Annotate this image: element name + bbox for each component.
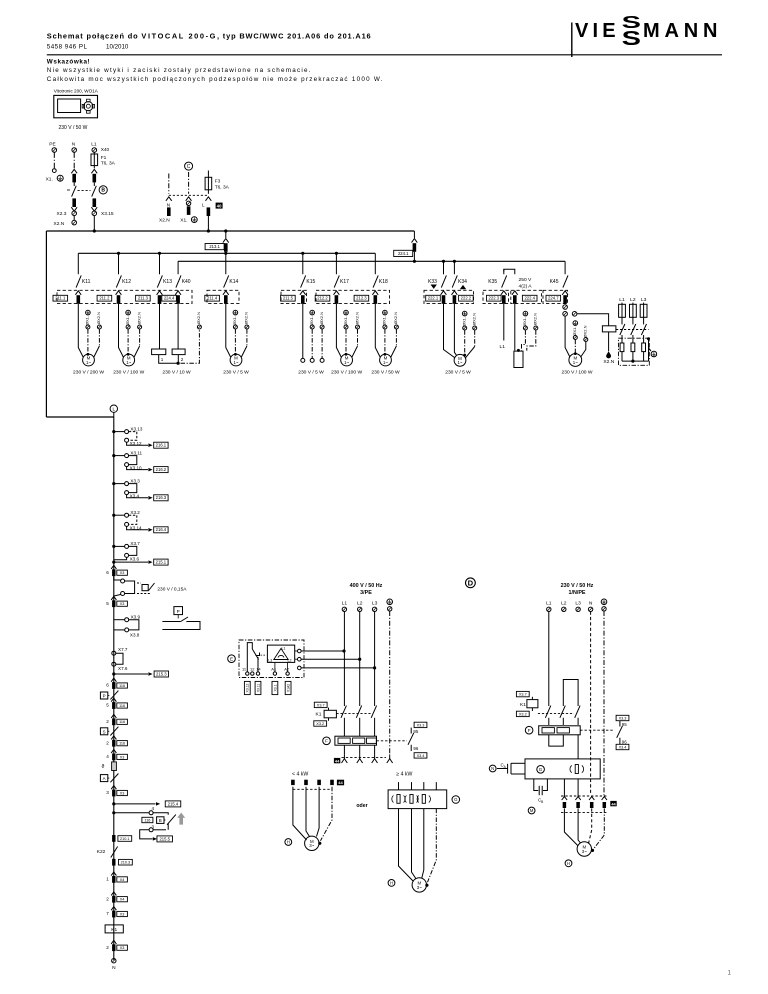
wire C right <box>207 171 209 178</box>
svg-text:L1: L1 <box>282 646 286 650</box>
relay coil K45 aux <box>602 326 616 332</box>
svg-text:95: 95 <box>413 729 418 734</box>
switch main L1 pole <box>92 186 97 197</box>
ref box 215.1 <box>154 559 168 565</box>
wire X1 dash-dot <box>574 340 576 353</box>
node 215.4 branch <box>112 802 115 805</box>
wire L1 to bus <box>93 216 95 231</box>
connector pin 7 X3 <box>111 907 116 911</box>
node L designator <box>110 405 117 412</box>
link X3.2-X3.14 <box>129 515 137 524</box>
svg-text:X3.4: X3.4 <box>417 754 425 758</box>
svg-text:ØX2.N: ØX2.N <box>96 312 101 324</box>
svg-text:ØX1.: ØX1. <box>343 316 348 325</box>
switch label B <box>99 186 107 194</box>
wires G outputs <box>563 779 565 798</box>
node K14 bus2 <box>224 252 227 255</box>
wire K35 to L1 end <box>503 304 505 341</box>
aux contact 95/96 <box>414 722 427 727</box>
contact pin B <box>121 592 125 596</box>
wire X1 dash-dot <box>345 329 347 353</box>
terminal X1. earth column <box>383 310 388 315</box>
svg-text:L3: L3 <box>575 600 581 606</box>
pin contact lower <box>563 312 568 317</box>
ref box 211.3 <box>136 295 151 301</box>
wire K18 to motor <box>375 306 380 358</box>
svg-text:L2: L2 <box>630 297 636 303</box>
connector K14 socket <box>223 291 229 295</box>
resistor element <box>620 343 624 352</box>
wire X3.8 return <box>113 617 115 620</box>
designator D <box>466 578 476 588</box>
wire X1 dash-dot open <box>311 329 313 358</box>
wire K34 below plug <box>453 304 455 306</box>
contact pin 4 <box>114 812 149 814</box>
link X3.3-X3.4 <box>129 484 137 493</box>
signal arrow to 216.2 <box>127 467 148 470</box>
svg-text:1~: 1~ <box>233 360 238 365</box>
module E dash-dot outline <box>239 640 304 678</box>
wire to 215.5 <box>140 830 153 839</box>
wire X2.N dash-dot <box>474 330 476 346</box>
plug box X4 <box>117 877 128 882</box>
motor K18 load <box>380 354 392 366</box>
plug box X3 <box>117 570 128 575</box>
svg-text:X3.3: X3.3 <box>130 478 140 483</box>
wire K34 to motor <box>454 306 456 355</box>
wire bus main 230V <box>46 230 414 232</box>
svg-text:12: 12 <box>250 667 255 672</box>
plug designator C <box>185 162 193 170</box>
connector K35b plug <box>513 295 517 304</box>
svg-text:X3.1: X3.1 <box>273 684 277 691</box>
motor K14 load <box>230 354 242 366</box>
wire X2.N dash-dot <box>246 329 248 346</box>
plug box X4 <box>117 897 128 902</box>
svg-text:212.2: 212.2 <box>317 296 328 301</box>
terminal X1. earth column <box>523 311 528 316</box>
svg-text:L: L <box>202 203 205 208</box>
dashed plug group outline <box>316 290 390 303</box>
connector pin 4 X3 <box>111 750 116 754</box>
ref box 212.3 <box>354 295 369 301</box>
ref box 224.7 <box>546 295 561 301</box>
fuse <box>619 304 626 317</box>
flow switch box 116 <box>142 817 153 822</box>
node right riser top <box>647 337 650 340</box>
svg-text:230 V / 5 W: 230 V / 5 W <box>298 369 324 375</box>
signal arrow to 216.1 <box>127 442 148 445</box>
overload relay F 1ph <box>525 726 533 734</box>
dashed link F to aux <box>377 740 408 742</box>
linkage dashed from coil <box>616 329 649 331</box>
ref box 216.2 <box>154 467 168 473</box>
connector pin 6 X3 <box>111 565 116 569</box>
svg-text:A2: A2 <box>284 667 290 672</box>
node K17 bus2 <box>335 252 338 255</box>
wire K11 below plug <box>77 304 79 306</box>
svg-text:X4: X4 <box>120 898 125 902</box>
motor K17 load <box>341 354 353 366</box>
node X3.2 branch <box>112 514 115 517</box>
svg-text:L: L <box>113 406 116 411</box>
node 213.1 bus <box>224 229 227 232</box>
ref box 211.5 <box>281 295 296 301</box>
svg-text:224.4: 224.4 <box>164 296 175 301</box>
svg-text:S: S <box>622 27 641 49</box>
actuation arrow <box>177 813 185 825</box>
svg-text:K18: K18 <box>379 279 388 285</box>
svg-text:1/N/PE: 1/N/PE <box>568 590 585 596</box>
wire PE small motor dash-dot <box>321 787 333 841</box>
svg-text:14: 14 <box>256 667 261 672</box>
contactor K1 3ph <box>314 702 327 707</box>
designator N <box>489 765 496 772</box>
svg-text:1~: 1~ <box>383 360 388 365</box>
terminal X1. earth column <box>233 310 238 315</box>
svg-text:L3: L3 <box>641 297 647 303</box>
node K35 load top <box>517 349 520 352</box>
soft starter G box <box>388 790 447 809</box>
node loads junction <box>177 362 180 365</box>
svg-text:211.2: 211.2 <box>99 296 110 301</box>
svg-text:6: 6 <box>106 683 109 688</box>
svg-text:211.5: 211.5 <box>283 296 294 301</box>
wire N to motor dashed <box>589 808 592 843</box>
wire X2.N to motor <box>581 342 586 357</box>
svg-text:X7.6: X7.6 <box>118 666 128 671</box>
svg-text:L2: L2 <box>561 600 567 606</box>
connector pin 2 116 <box>111 736 116 740</box>
connector K18 plug <box>374 295 378 304</box>
svg-text:K14: K14 <box>229 279 238 285</box>
contactor blades 3ph <box>621 320 623 324</box>
svg-text:4(2) A: 4(2) A <box>519 284 533 290</box>
connector L1 socket <box>91 169 97 173</box>
svg-text:X2.3: X2.3 <box>57 211 67 217</box>
ref box 213.1 <box>205 244 224 250</box>
ref box 215.3 <box>154 671 168 677</box>
ref box 222.1 <box>426 295 441 301</box>
switch main N pole <box>67 189 70 191</box>
svg-text:K15: K15 <box>306 279 315 285</box>
svg-text:Vitotronic 200, WO1A: Vitotronic 200, WO1A <box>54 89 99 94</box>
wire E to L1 <box>301 650 344 652</box>
wire X1 dash-dot <box>127 329 129 353</box>
svg-text:ØX2.N: ØX2.N <box>472 313 477 325</box>
wire K40 below plug <box>177 304 179 306</box>
wire K13 to load <box>159 306 161 350</box>
svg-text:215.4: 215.4 <box>168 801 179 806</box>
node K12 bus2 <box>117 252 120 255</box>
svg-text:K13: K13 <box>163 279 172 285</box>
svg-text:X3: X3 <box>120 912 125 916</box>
connector K11 socket <box>75 291 81 295</box>
ref box 211.2 <box>97 295 112 301</box>
svg-text:216.3: 216.3 <box>156 495 167 500</box>
wires G to motor <box>399 809 414 882</box>
connector K35b socket <box>512 291 518 295</box>
soft starter module <box>267 645 294 662</box>
svg-text:B: B <box>159 818 162 823</box>
dashed plug group outline <box>281 290 307 303</box>
plug box X3 <box>117 790 128 795</box>
svg-text:ØX1.: ØX1. <box>232 316 237 325</box>
contact X3.13 <box>114 431 125 433</box>
terminal N chain end <box>112 959 116 963</box>
svg-text:ØX2.N: ØX2.N <box>319 312 324 324</box>
wire left feed down <box>45 231 47 417</box>
svg-text:S: S <box>103 729 106 734</box>
dashed row 1ph <box>561 795 607 797</box>
svg-text:400 V / 50 Hz: 400 V / 50 Hz <box>350 583 383 589</box>
wire resistor bottom bus <box>622 360 649 362</box>
resistor box dash-dot outline <box>619 338 650 365</box>
svg-text:ØX1.: ØX1. <box>309 316 314 325</box>
designator E <box>228 655 236 663</box>
node L bus <box>207 229 210 232</box>
wire X2.N dash-dot to load <box>527 330 536 350</box>
wire K15 below plug <box>302 304 304 306</box>
node contact 4 branch <box>112 811 115 814</box>
connector K11 plug <box>77 295 81 304</box>
node X1 motor <box>463 354 466 357</box>
node X3.11 branch <box>112 454 115 457</box>
svg-text:X1.: X1. <box>180 217 187 223</box>
plug box 116 <box>117 719 128 724</box>
connector K17 socket <box>334 291 340 295</box>
svg-text:C: C <box>187 164 191 170</box>
svg-text:K22: K22 <box>97 849 106 855</box>
wire C mid dash-dot <box>188 172 190 194</box>
svg-text:X3.3: X3.3 <box>619 716 627 720</box>
svg-text:B: B <box>101 188 105 194</box>
connector N plug lower <box>72 198 76 207</box>
wire X1 dash-dot <box>234 329 236 353</box>
wire X2.N dash-dot <box>357 329 359 346</box>
node X1 motor <box>384 353 387 356</box>
K1 linkage dashed 1ph <box>538 713 574 715</box>
wire K17 below plug <box>335 304 337 306</box>
designator G <box>452 796 460 804</box>
contact X3.2 <box>114 514 125 516</box>
motor K33/K34 load <box>454 354 466 366</box>
svg-text:230 V / 50 W: 230 V / 50 W <box>59 125 88 131</box>
svg-text:L1: L1 <box>546 600 552 606</box>
svg-text:N: N <box>112 965 116 971</box>
ref box 212.2 <box>315 295 330 301</box>
svg-text:230 V / 50 W: 230 V / 50 W <box>371 369 400 375</box>
switch S on chain <box>100 728 107 735</box>
svg-text:116: 116 <box>144 818 150 822</box>
relay contact K13 <box>159 253 161 274</box>
disconnect connectors 1ph <box>562 797 567 800</box>
svg-text:K40: K40 <box>182 279 191 285</box>
svg-text:K45: K45 <box>550 279 559 285</box>
ref box 216.1 <box>154 442 168 448</box>
svg-text:K1: K1 <box>316 712 322 718</box>
svg-text:X2.N: X2.N <box>603 359 614 365</box>
load K35 (heater) <box>514 351 523 367</box>
svg-text:F1: F1 <box>101 155 107 161</box>
switch A on chain <box>100 775 107 782</box>
pin out L3 <box>298 666 302 670</box>
svg-text:2: 2 <box>181 357 184 362</box>
converter G box 1ph <box>525 759 600 779</box>
contact X3.4 <box>125 491 129 495</box>
svg-text:224.1: 224.1 <box>398 251 409 256</box>
K34 direction marker <box>460 285 466 289</box>
wire PE G motor dash-dot <box>428 809 437 883</box>
aux contact 95/96 1ph <box>616 715 629 720</box>
svg-text:1~: 1~ <box>126 360 131 365</box>
K33 direction marker <box>431 285 437 289</box>
connector K15 socket <box>300 291 306 295</box>
ref box 216.4 <box>154 527 168 533</box>
wire PE 3ph dash-dot <box>389 611 391 754</box>
bridge pole2-pole3 <box>563 680 578 707</box>
svg-text:N: N <box>72 142 76 148</box>
svg-text:H: H <box>390 880 393 885</box>
connector K18 socket <box>372 291 378 295</box>
svg-text:230 V / 50 Hz: 230 V / 50 Hz <box>561 583 594 589</box>
wire drop to 224.1 <box>413 231 415 238</box>
node L1 bus <box>93 229 96 232</box>
contact X3.8 <box>125 628 129 632</box>
svg-text:B: B <box>541 800 543 804</box>
connector K15 plug <box>301 295 305 304</box>
ref box 224.1 <box>394 250 413 256</box>
svg-text:222.1: 222.1 <box>428 296 439 301</box>
svg-text:X3.13: X3.13 <box>130 426 142 431</box>
svg-text:X3.7: X3.7 <box>317 703 325 707</box>
svg-text:230 V / 100 W: 230 V / 100 W <box>113 369 144 375</box>
relay contact K12 <box>118 253 120 274</box>
svg-text:2: 2 <box>106 896 109 901</box>
svg-text:X2.N: X2.N <box>159 217 170 223</box>
dashed link F to aux 1ph <box>580 729 613 731</box>
svg-text:ØX2.N: ØX2.N <box>244 312 249 324</box>
plug box X3 <box>117 754 128 759</box>
connector pin 1 X4 <box>111 872 116 876</box>
svg-text:X7.7: X7.7 <box>118 647 128 652</box>
resistor element <box>631 343 635 352</box>
relay contact K35 <box>503 269 505 274</box>
svg-text:L1: L1 <box>91 142 97 148</box>
svg-text:X3.11: X3.11 <box>130 450 142 455</box>
wire load1 bottom <box>159 355 178 364</box>
dashed plug group outline <box>543 290 568 303</box>
motor K12 load <box>123 354 135 366</box>
wire pole3 down <box>577 735 579 759</box>
svg-text:1: 1 <box>728 970 732 977</box>
plug 210.3 <box>112 859 115 866</box>
wire K11 to motor <box>78 306 83 358</box>
svg-text:X2.N: X2.N <box>54 221 65 227</box>
ref box 216.3 <box>154 495 168 501</box>
contact X3.9 <box>114 619 125 621</box>
svg-text:210.3: 210.3 <box>121 861 131 865</box>
svg-text:K12: K12 <box>122 279 131 285</box>
svg-text:5: 5 <box>106 601 109 606</box>
wire L2 3ph <box>359 612 361 707</box>
svg-text:213.1: 213.1 <box>209 244 220 249</box>
svg-text:X3: X3 <box>120 571 125 575</box>
svg-text:116: 116 <box>119 742 125 746</box>
svg-text:X3.15: X3.15 <box>101 211 114 217</box>
svg-text:ØX1.: ØX1. <box>572 327 577 336</box>
switch P on chain <box>100 692 107 699</box>
ref box 211.1 <box>53 295 68 301</box>
ref box 215.4 <box>165 801 181 807</box>
wire K12 to motor <box>119 306 124 358</box>
svg-text:P: P <box>103 694 106 699</box>
relay element <box>142 585 148 591</box>
capacitor CA branch <box>511 762 525 764</box>
svg-text:K1: K1 <box>520 702 526 708</box>
link X7.7-X7.6 <box>116 653 123 664</box>
svg-text:2: 2 <box>106 945 109 950</box>
connector 213.1 socket <box>223 239 229 243</box>
svg-text:X3.8: X3.8 <box>130 633 140 638</box>
svg-text:F3: F3 <box>215 178 221 184</box>
svg-text:X3.11: X3.11 <box>256 684 260 693</box>
svg-text:G: G <box>539 767 543 772</box>
fuse <box>630 304 637 317</box>
svg-text:216.2: 216.2 <box>156 467 167 472</box>
connector L socket <box>206 197 212 201</box>
relay contact K11 <box>77 253 79 274</box>
link X3.13-X3.12 <box>129 432 137 441</box>
connector X1 plug <box>187 206 191 215</box>
svg-text:K17: K17 <box>340 279 349 285</box>
terminal X1. earth column <box>573 321 578 326</box>
svg-text:116: 116 <box>119 720 125 724</box>
terminal box X3.11 <box>255 681 261 694</box>
svg-text:4: 4 <box>152 806 155 811</box>
svg-text:X40: X40 <box>101 147 110 153</box>
wire main chain <box>113 417 115 960</box>
svg-text:1~: 1~ <box>344 360 349 365</box>
connector N socket <box>166 197 172 201</box>
svg-text:4: 4 <box>106 754 109 759</box>
wire to flow switch <box>153 813 168 815</box>
contact X3.14 <box>125 522 129 526</box>
node X1 motor <box>234 353 237 356</box>
wire K45 to motor <box>565 316 570 357</box>
svg-text:1~: 1~ <box>573 360 578 365</box>
wires to motor 1ph <box>564 808 578 846</box>
node K13 bus2 <box>158 252 161 255</box>
terminal box X3.1 <box>272 681 278 694</box>
svg-text:230 V / 100 W: 230 V / 100 W <box>562 369 593 375</box>
ref box 222.2 <box>459 295 474 301</box>
relay contact K45 <box>564 261 566 274</box>
svg-text:X3: X3 <box>120 602 125 606</box>
svg-text:ØX1.: ØX1. <box>462 317 467 326</box>
svg-text:A: A <box>103 776 106 781</box>
svg-text:T6, 3A: T6, 3A <box>101 161 116 167</box>
svg-text:MANN: MANN <box>643 20 722 42</box>
contact X3.3 <box>114 483 125 485</box>
linkage dashed <box>169 194 209 196</box>
connector 224.1 plug <box>413 243 417 252</box>
node X1 motor <box>574 352 577 355</box>
connector K40 plug <box>176 295 180 304</box>
plug box X3 <box>117 601 128 606</box>
svg-text:3: 3 <box>106 790 109 795</box>
controller knob <box>84 102 93 111</box>
